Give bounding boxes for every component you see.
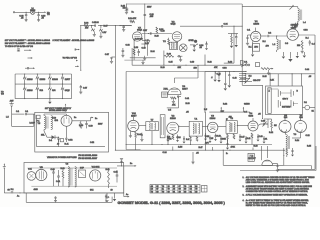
svg-text:3V4: 3V4	[299, 117, 302, 119]
svg-text:3V4: 3V4	[40, 90, 43, 92]
capacitor C-37a	[112, 56, 116, 58]
tube V-11 reg	[27, 172, 36, 181]
svg-text:C-33: C-33	[142, 48, 146, 50]
heater V8 row2	[62, 84, 64, 87]
antenna ANT	[10, 103, 14, 105]
capacitor C-10	[228, 74, 230, 76]
heater V6 row2	[36, 84, 38, 87]
heater V2 row1	[36, 74, 38, 77]
wire v5 down	[284, 133, 287, 135]
pilot lamp I-1	[31, 10, 35, 14]
svg-text:OSC: OSC	[223, 68, 228, 70]
capacitor C-40 w arrow	[27, 67, 29, 69]
parts table	[150, 185, 200, 194]
ps bottom wire	[37, 146, 106, 148]
svg-text:C-32: C-32	[126, 45, 130, 47]
ground	[268, 70, 270, 73]
transformer T-2 output	[170, 42, 178, 49]
svg-text:3V4: 3V4	[52, 90, 55, 92]
wire top audio	[127, 3, 243, 5]
capacitor C-65	[105, 195, 107, 197]
ground filament string	[49, 99, 51, 102]
vertical 2422	[241, 4, 243, 85]
wire coil top	[295, 6, 298, 8]
transformer T-6	[68, 167, 70, 187]
svg-text:C-5: C-5	[168, 110, 171, 112]
IF transformer T-1	[189, 121, 202, 136]
vib box right vert	[123, 166, 125, 197]
wire det cluster	[266, 123, 268, 125]
svg-text:C-4: C-4	[312, 44, 315, 46]
svg-text:T-6: T-6	[66, 164, 69, 166]
junction	[163, 65, 164, 66]
wire v1 to c2	[261, 35, 267, 37]
svg-text:GONSET MODEL G-11 ( 3296, 3297: GONSET MODEL G-11 ( 3296, 3297, 3293, 30…	[118, 200, 226, 205]
junction	[121, 165, 122, 166]
tube V-6 af out	[295, 121, 307, 133]
antenna arrow	[290, 6, 294, 10]
filament bus top	[15, 73, 71, 75]
junctions lower	[172, 150, 173, 151]
wire mod4	[278, 168, 316, 170]
svg-text:R-37: R-37	[104, 26, 108, 28]
capacitor C-48	[141, 133, 143, 135]
output transformer T-3	[286, 135, 288, 150]
svg-text:C-62: C-62	[114, 172, 118, 174]
capacitor C-8	[224, 72, 226, 84]
svg-text:R-50: R-50	[61, 168, 65, 170]
wire v14 plate	[139, 125, 146, 127]
svg-text:12AT7: 12AT7	[65, 78, 70, 81]
capacitor C-2	[267, 35, 269, 37]
svg-text:87: 87	[179, 186, 181, 188]
capacitor C-27	[123, 25, 125, 28]
svg-text:C-17: C-17	[241, 137, 245, 139]
wire gang to switch	[204, 72, 206, 113]
bypass caps band	[167, 135, 169, 137]
trimmer C-20	[263, 123, 265, 125]
svg-text:FUSE: FUSE	[30, 10, 36, 12]
capacitor C-31	[177, 55, 179, 57]
svg-text:.005: .005	[150, 16, 154, 18]
wire	[16, 11, 31, 13]
module verticals	[260, 146, 262, 160]
svg-text:12BA6: 12BA6	[210, 117, 216, 120]
capacitor C-42	[206, 41, 207, 42]
resistor R-27	[145, 40, 150, 42]
wire riser cath	[131, 48, 133, 65]
ground mod	[276, 169, 279, 171]
battery risers	[269, 74, 271, 86]
svg-text:R-24 47K: R-24 47K	[128, 18, 137, 20]
below box caps	[106, 193, 108, 197]
svg-text:.1: .1	[211, 77, 213, 79]
svg-text:GANG: GANG	[244, 103, 250, 106]
box R-41	[60, 139, 63, 142]
phone jack J-2	[194, 40, 197, 43]
svg-text:SPKR: SPKR	[189, 40, 195, 42]
svg-text:6X4: 6X4	[90, 190, 93, 192]
capacitor C-1	[246, 37, 248, 39]
svg-text:250: 250	[194, 68, 197, 70]
b- return wire	[25, 193, 27, 202]
arrow up2	[242, 108, 244, 112]
resistor R-44	[135, 132, 137, 138]
capacitor C-64	[55, 195, 57, 198]
svg-text:CONNECTED WITH VOLUME CONTROL: CONNECTED WITH VOLUME CONTROL SET AT MIN…	[246, 190, 309, 193]
wire riser T-2 feed	[163, 51, 165, 66]
capacitor C-ant	[24, 113, 26, 115]
svg-text:R-26: R-26	[134, 47, 138, 49]
ground stub3	[303, 52, 305, 55]
resistor R-30	[164, 55, 173, 57]
svg-text:V-11: V-11	[28, 169, 32, 171]
svg-text:18: 18	[151, 189, 153, 191]
svg-text:80: 80	[156, 191, 158, 193]
svg-text:C-1: C-1	[25, 111, 28, 113]
ground arrow	[235, 45, 238, 47]
ground	[121, 54, 124, 56]
svg-text:C-61: C-61	[56, 181, 60, 183]
ground	[125, 11, 128, 13]
ground osc	[172, 100, 174, 102]
capacitor C-50	[85, 123, 88, 125]
ac plug P-1	[37, 115, 41, 118]
resistor R-24	[130, 20, 135, 22]
wire v4 plate	[258, 124, 261, 126]
battery bracket	[268, 88, 271, 114]
svg-text:T-5: T-5	[38, 123, 41, 125]
terminal J1 line input	[13, 12, 14, 13]
vertical mod	[310, 166, 312, 170]
wire corner switch	[233, 26, 235, 63]
svg-text:470: 470	[85, 28, 88, 30]
wire RF top	[242, 6, 295, 8]
svg-text:R-51: R-51	[106, 169, 110, 171]
arrow C	[75, 65, 78, 67]
resistor R-50	[62, 171, 64, 178]
arrow up ps	[65, 105, 67, 108]
svg-text:470K: 470K	[167, 139, 172, 141]
ground	[93, 34, 96, 36]
svg-text:C-37: C-37	[83, 88, 87, 90]
svg-text:1M: 1M	[274, 125, 277, 127]
resistors band	[172, 135, 174, 140]
tube V-12 rect	[90, 170, 101, 181]
resistor R-29	[168, 39, 170, 45]
svg-text:79: 79	[162, 186, 164, 188]
svg-text:R-35: R-35	[263, 76, 267, 78]
svg-text:40: 40	[151, 186, 153, 188]
vib box	[24, 163, 124, 194]
svg-text:T-3: T-3	[294, 134, 297, 136]
svg-text:C-41: C-41	[185, 98, 189, 100]
svg-text:6 VOLT FILAMENT - MODEL #3004: 6 VOLT FILAMENT - MODEL #3004 & #3005	[53, 39, 95, 42]
svg-text:C-2: C-2	[268, 32, 271, 34]
svg-text:R-23: R-23	[228, 62, 232, 64]
svg-text:R-26 220: R-26 220	[135, 38, 143, 40]
wire h578	[130, 57, 156, 59]
svg-text:C-18: C-18	[259, 136, 263, 138]
capacitor C-34 on bus	[221, 25, 223, 27]
svg-text:C-52: C-52	[90, 142, 94, 144]
capacitor C-63	[121, 161, 123, 166]
wire ps right	[72, 120, 91, 122]
svg-text:60: 60	[167, 191, 169, 193]
svg-text:.05: .05	[196, 153, 199, 155]
capacitor C-32	[122, 49, 125, 51]
svg-text:S-2: S-2	[249, 76, 252, 78]
svg-text:C-1: C-1	[16, 111, 19, 113]
coil L-2	[276, 36, 278, 39]
junction	[26, 12, 27, 13]
svg-text:6BA6: 6BA6	[248, 114, 253, 117]
svg-text:91: 91	[173, 191, 175, 193]
capacitor C-35	[235, 34, 237, 37]
arrow below box	[124, 196, 128, 198]
svg-text:C-37: C-37	[105, 54, 109, 56]
vib bus top	[31, 167, 117, 169]
wire	[255, 28, 257, 32]
svg-text:R-17: R-17	[199, 147, 203, 149]
ground v14	[129, 131, 131, 135]
bus if2	[202, 125, 207, 127]
svg-text:230 VOLT FILAMENT * - MODEL #3: 230 VOLT FILAMENT * - MODEL #3005 & #300…	[5, 42, 51, 45]
svg-text:C-28: C-28	[161, 31, 165, 33]
svg-text:6AQ5: 6AQ5	[65, 89, 70, 92]
ground below	[114, 193, 116, 199]
svg-text:11: 11	[162, 189, 164, 191]
svg-text:ON-OFF: ON-OFF	[253, 80, 261, 82]
vib bus bottom	[31, 185, 117, 187]
junction	[225, 71, 226, 72]
wire plate bus	[142, 33, 172, 35]
svg-text:R-22: R-22	[208, 62, 212, 64]
junction	[123, 25, 124, 26]
jack circles	[246, 64, 248, 66]
wire avc drops	[167, 142, 169, 145]
svg-text:REFER TO FIGS 12 AND 13 FOR LI: REFER TO FIGS 12 AND 13 FOR LINE CORD AN…	[246, 204, 307, 207]
svg-text:40: 40	[57, 144, 59, 146]
battery box	[266, 86, 303, 115]
bus if4	[237, 125, 248, 127]
svg-text:.05: .05	[186, 112, 189, 114]
svg-text:R-44: R-44	[137, 134, 141, 136]
svg-text:4016: 4016	[34, 189, 38, 191]
svg-text:2.2M: 2.2M	[178, 147, 183, 149]
wire ant	[12, 113, 25, 115]
capacitor C-51	[58, 136, 60, 139]
capacitor C-9	[218, 74, 220, 76]
antenna coil L-1	[298, 8, 300, 21]
svg-text:6AQ5: 6AQ5	[171, 23, 176, 26]
heater V7 row2	[49, 84, 51, 87]
wire	[35, 11, 44, 13]
wire ant2	[27, 113, 35, 115]
wire osc down	[178, 97, 180, 108]
svg-text:R-32: R-32	[223, 104, 227, 106]
capacitor C-62	[116, 174, 119, 176]
wire mod2	[283, 148, 285, 166]
wire right vertical	[314, 35, 316, 169]
ground	[122, 29, 125, 31]
wire avc feed	[242, 84, 262, 86]
svg-text:R-4: R-4	[306, 38, 309, 40]
tube V-14 cal osc	[128, 120, 139, 131]
wire fb	[141, 43, 147, 45]
svg-text:C-14: C-14	[177, 137, 181, 139]
bus grid	[120, 25, 131, 27]
wire jack drop	[204, 55, 206, 66]
ground	[301, 50, 304, 52]
fuse inline	[11, 191, 13, 193]
svg-text:12BA6: 12BA6	[27, 78, 33, 81]
svg-text:D-1: D-1	[49, 140, 52, 142]
svg-text:L-5: L-5	[6, 117, 9, 119]
svg-text:6X4: 6X4	[55, 120, 58, 122]
wire ps top	[44, 113, 67, 115]
svg-text:C-45: C-45	[217, 74, 221, 76]
junction	[194, 44, 195, 45]
svg-text:R-14: R-14	[295, 140, 299, 142]
transformer T-4	[248, 153, 254, 161]
tube V-7 output	[133, 32, 142, 41]
vibrator VIB	[36, 169, 47, 180]
svg-text:39: 39	[184, 191, 186, 193]
svg-text:C-50: C-50	[89, 126, 93, 128]
svg-text:12BA6: 12BA6	[52, 78, 58, 81]
arrow to T-5	[44, 11, 46, 13]
svg-text:C-34: C-34	[224, 23, 228, 25]
heater V-8 fil	[100, 26, 102, 29]
bus verticals junctions	[173, 65, 174, 66]
svg-text:C-52: C-52	[68, 140, 72, 142]
ground arrow	[230, 46, 233, 48]
box xtal	[162, 92, 168, 97]
svg-text:R-9: R-9	[186, 139, 189, 141]
ground	[25, 19, 28, 21]
ground arrow	[193, 50, 196, 52]
capacitor C-47	[227, 139, 228, 140]
ground	[246, 42, 249, 44]
svg-text:12AT7: 12AT7	[182, 88, 187, 91]
ground stub v1	[252, 41, 254, 54]
capacitor C-37b	[80, 85, 82, 87]
svg-text:12BA6: 12BA6	[27, 89, 33, 92]
svg-text:V-9: V-9	[1, 94, 4, 96]
heater V3 row1	[49, 74, 51, 77]
svg-text:70: 70	[162, 191, 164, 193]
tube V-13 dome	[262, 160, 273, 165]
svg-text:SEL: SEL	[41, 135, 45, 137]
svg-text:TO PIN 4 OF V-8: TO PIN 4 OF V-8	[63, 58, 77, 60]
switch arm	[241, 64, 246, 68]
svg-text:XTAL: XTAL	[164, 88, 169, 91]
heater V-7 fil	[91, 26, 93, 29]
svg-text:R-34: R-34	[151, 51, 155, 53]
tube V-8 output	[172, 32, 182, 42]
ground big	[289, 52, 291, 59]
arrow B	[28, 57, 32, 59]
wire mod	[273, 163, 278, 165]
svg-text:470: 470	[266, 46, 269, 48]
svg-text:T-1: T-1	[194, 119, 197, 121]
ground	[142, 60, 144, 62]
ps verticals	[36, 119, 38, 147]
connector X1	[17, 48, 20, 50]
svg-text:70: 70	[167, 189, 169, 191]
tube V-1 rf amp	[251, 31, 261, 41]
wire t7 down	[151, 131, 153, 145]
wire low	[209, 111, 250, 113]
tube V-9 dome	[168, 88, 181, 95]
svg-text:C-15: C-15	[205, 136, 209, 138]
resistor R-51	[108, 171, 110, 184]
capacitor C-39	[38, 12, 40, 14]
svg-text:57: 57	[173, 186, 175, 188]
svg-text:C-60: C-60	[51, 169, 55, 171]
wire plate	[298, 34, 315, 36]
wire stub	[228, 33, 238, 35]
svg-text:R-1: R-1	[249, 47, 252, 49]
junction b- join	[126, 144, 127, 145]
junction	[276, 35, 277, 36]
bottom wire	[24, 192, 124, 194]
svg-text:79: 79	[151, 191, 153, 193]
resistor R-36	[84, 25, 89, 27]
svg-text:R-5: R-5	[204, 109, 207, 111]
svg-text:C-7: C-7	[244, 112, 247, 114]
svg-text:MODEL #3000 ONLY: MODEL #3000 ONLY	[49, 110, 68, 112]
svg-text:.02: .02	[199, 47, 202, 49]
bus junction dots	[91, 25, 92, 26]
svg-text:.05: .05	[21, 18, 24, 20]
capacitor C-36	[94, 24, 96, 26]
resistor R-40	[80, 123, 82, 129]
bus if3	[218, 125, 226, 127]
svg-text:L-2: L-2	[273, 44, 276, 46]
bus osc	[205, 71, 246, 73]
svg-text:L-4: L-4	[303, 22, 306, 24]
wire h601	[124, 59, 145, 61]
junction	[91, 25, 92, 26]
svg-text:39: 39	[184, 189, 186, 191]
ps box	[35, 112, 109, 152]
bus if1	[179, 125, 189, 127]
svg-text:100K: 100K	[222, 139, 227, 141]
svg-text:LINE CONN FOR ALL READINGS AND: LINE CONN FOR ALL READINGS AND ADJUSTMEN…	[246, 181, 310, 184]
svg-text:LOOP: LOOP	[30, 123, 36, 125]
battery lead	[3, 168, 5, 193]
svg-text:C-44: C-44	[305, 69, 309, 71]
wire b- drops	[172, 147, 174, 151]
wire A+ center vertical	[114, 26, 116, 151]
IF transformer T-2	[226, 121, 237, 134]
bus B+ mid	[132, 64, 246, 66]
battery cell A	[277, 90, 279, 98]
filament right rail	[71, 74, 73, 99]
svg-text:R-36: R-36	[84, 22, 88, 24]
battery terminal	[3, 166, 6, 168]
tube V-10 rect	[61, 115, 72, 126]
resistor R-31	[231, 36, 233, 43]
terminal left 6v	[80, 26, 82, 71]
svg-text:R-11: R-11	[247, 138, 251, 140]
ground	[37, 19, 40, 21]
capacitor C-71	[291, 150, 293, 152]
svg-text:91: 91	[190, 191, 192, 193]
svg-text:70: 70	[195, 189, 197, 191]
